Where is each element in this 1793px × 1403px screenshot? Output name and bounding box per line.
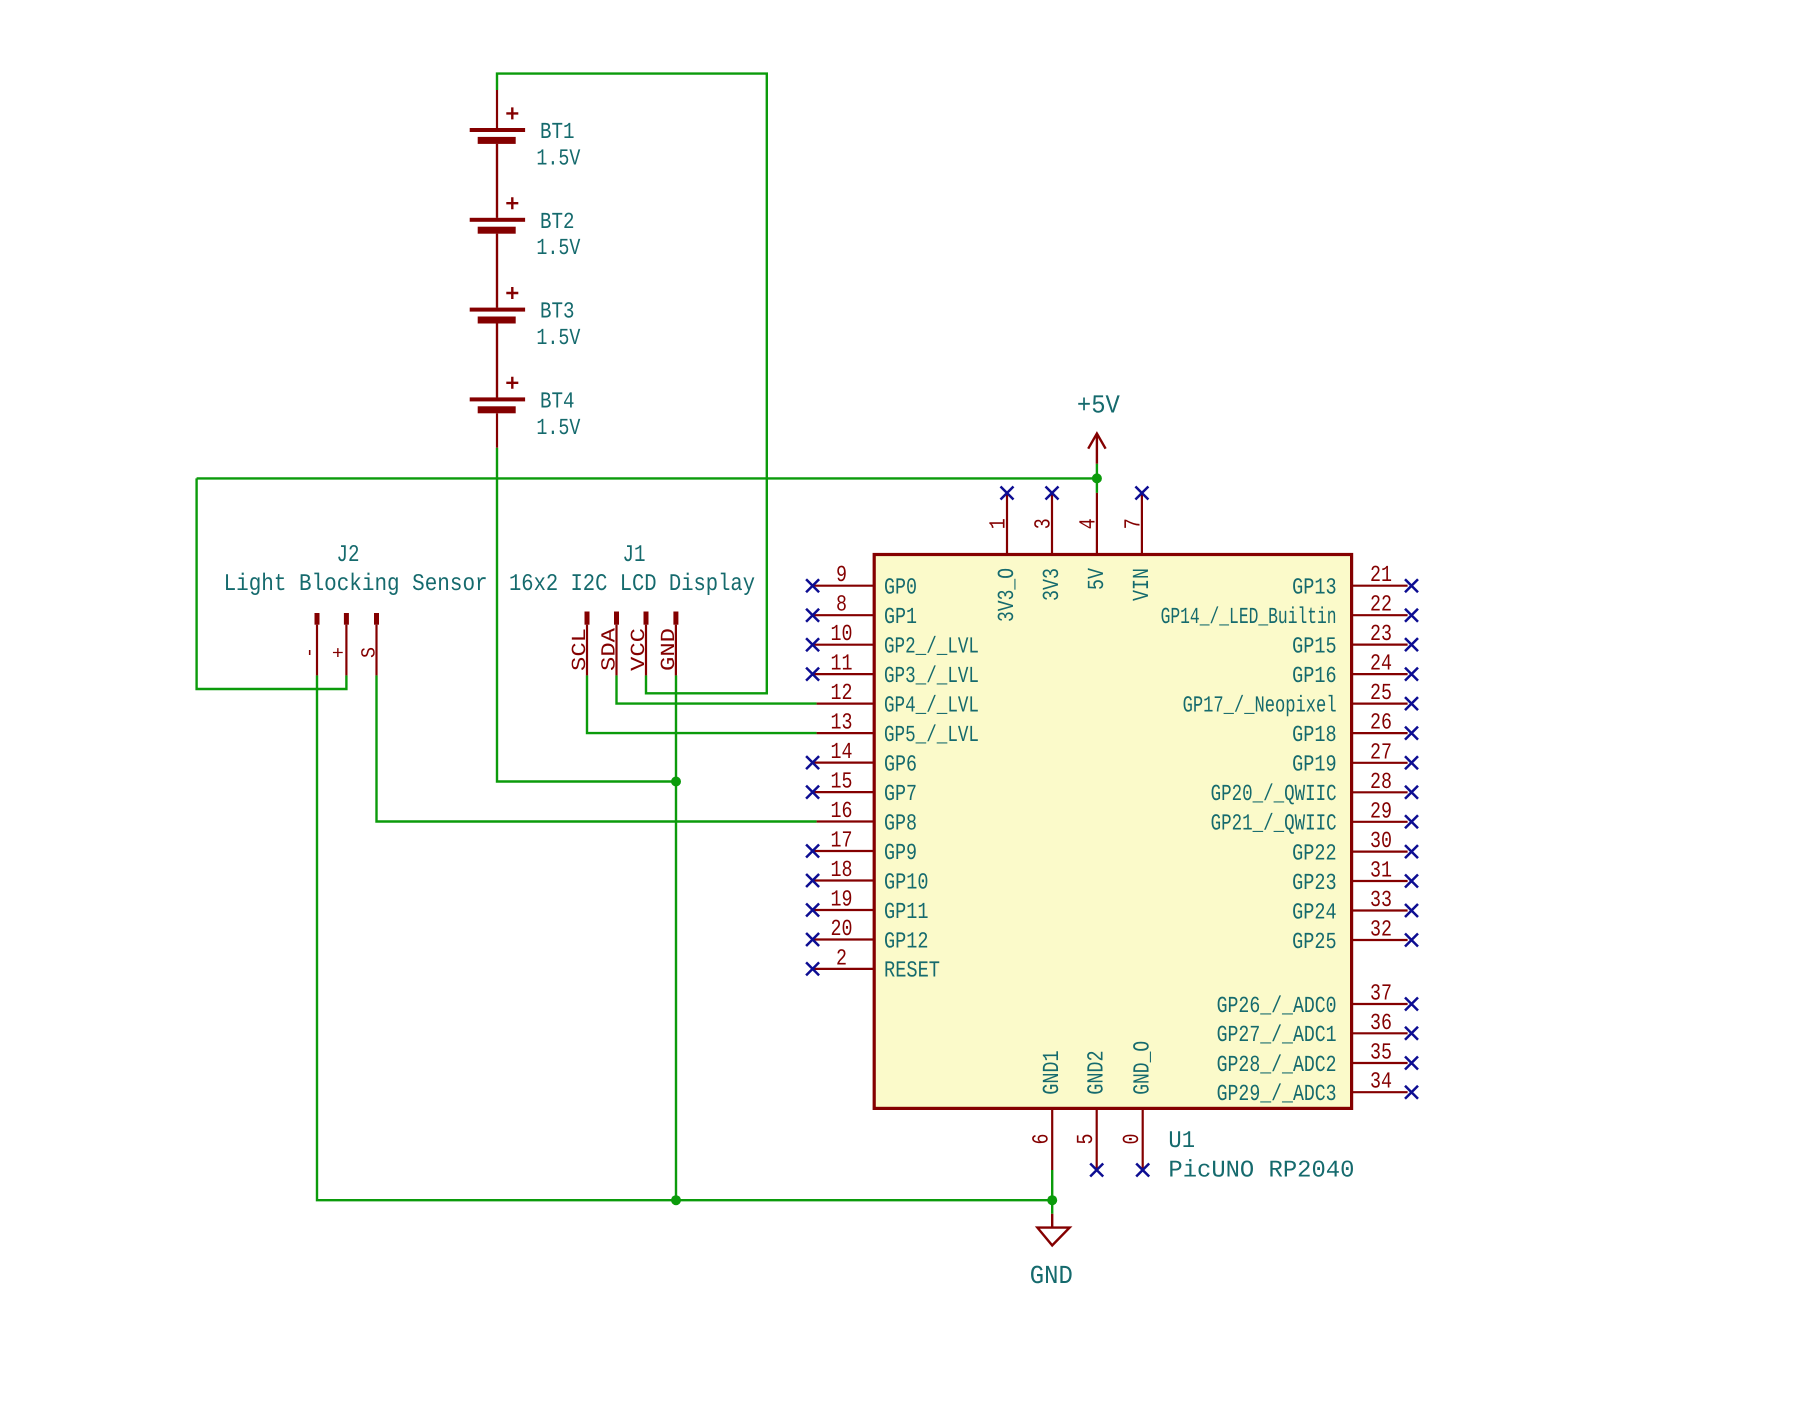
U1 pin 16 (GP8)	[817, 798, 917, 836]
svg-text:GP29_/_ADC3: GP29_/_ADC3	[1217, 1081, 1337, 1107]
svg-text:GP7: GP7	[884, 781, 917, 807]
svg-text:30: 30	[1370, 828, 1392, 854]
svg-text:12: 12	[831, 680, 853, 706]
svg-text:VCC: VCC	[628, 628, 651, 671]
wire: +5V power symbol to U1 5V pin (pin 4)	[1096, 464, 1098, 493]
U1 pin 11 (GP3_/_LVL)	[806, 651, 979, 689]
svg-text:36: 36	[1370, 1010, 1392, 1036]
svg-text:16: 16	[831, 798, 853, 824]
U1 pin 10 (GP2_/_LVL)	[806, 621, 979, 659]
svg-text:18: 18	[831, 857, 853, 883]
U1 pin 7 (VIN) top	[1120, 487, 1155, 602]
connector J2 reference and name	[224, 542, 488, 598]
wire: J2 S pin to U1 GP8 (pin 16)	[377, 675, 817, 821]
svg-text:1.5V: 1.5V	[536, 325, 580, 351]
svg-text:3: 3	[1031, 518, 1057, 529]
U1 pin 17 (GP9)	[806, 828, 917, 866]
svg-text:25: 25	[1370, 680, 1392, 706]
svg-text:GND1: GND1	[1039, 1050, 1065, 1095]
svg-text:3V3_O: 3V3_O	[994, 568, 1020, 622]
svg-text:GP9: GP9	[884, 840, 917, 866]
svg-text:27: 27	[1370, 739, 1392, 765]
U1 pin 20 (GP12)	[806, 916, 928, 954]
U1 pin 9 (GP0)	[806, 562, 917, 600]
wire: J2 - pin down to GND bottom rail	[317, 675, 1052, 1200]
svg-text:6: 6	[1029, 1134, 1055, 1145]
svg-text:SCL: SCL	[569, 628, 592, 671]
svg-text:GP21_/_QWIIC: GP21_/_QWIIC	[1211, 811, 1337, 837]
svg-text:4: 4	[1075, 518, 1101, 529]
junction: +5V rail at U1 5V pin	[1092, 473, 1102, 483]
U1 pin 37 (GP26_/_ADC0)	[1217, 981, 1418, 1019]
U1 pin 24 (GP16)	[1292, 651, 1418, 689]
svg-text:J2: J2	[337, 542, 360, 569]
svg-text:33: 33	[1370, 887, 1392, 913]
svg-text:GP18: GP18	[1292, 722, 1337, 748]
svg-text:GP28_/_ADC2: GP28_/_ADC2	[1217, 1052, 1337, 1078]
svg-text:GP11: GP11	[884, 899, 929, 925]
svg-text:5V: 5V	[1084, 568, 1110, 590]
connector J1 reference and name	[509, 542, 755, 598]
svg-text:GP4_/_LVL: GP4_/_LVL	[884, 692, 979, 718]
junction: J1 GND vertical joins bottom GND rail	[671, 1195, 681, 1205]
battery BT1 1.5V	[470, 90, 581, 218]
wire: +5V rail down/over to J2 + pin	[197, 478, 347, 689]
U1 pin 30 (GP22)	[1292, 828, 1418, 866]
power symbol +5V	[1077, 391, 1120, 464]
svg-text:GP2_/_LVL: GP2_/_LVL	[884, 634, 979, 660]
svg-text:GP22: GP22	[1292, 840, 1337, 866]
svg-text:11: 11	[831, 651, 853, 677]
svg-text:+5V: +5V	[1077, 391, 1120, 421]
U1 pin 1 (3V3_O) top	[986, 487, 1021, 623]
svg-text:J1: J1	[623, 542, 646, 569]
op-amp-style IC body: U1 PicUNO RP2040	[874, 555, 1351, 1109]
svg-text:1.5V: 1.5V	[536, 235, 580, 261]
svg-text:9: 9	[836, 562, 847, 588]
svg-text:GP19: GP19	[1292, 752, 1337, 778]
U1 pin 27 (GP19)	[1292, 739, 1418, 777]
U1 pin 25 (GP17_/_Neopixel)	[1183, 680, 1418, 718]
svg-text:31: 31	[1370, 858, 1392, 884]
ground symbol GND	[1030, 1214, 1073, 1291]
svg-text:GP26_/_ADC0: GP26_/_ADC0	[1217, 993, 1337, 1019]
svg-text:BT2: BT2	[540, 209, 575, 235]
U1 pin 2 (RESET)	[806, 945, 940, 983]
svg-text:GP27_/_ADC1: GP27_/_ADC1	[1217, 1022, 1337, 1048]
svg-text:GP20_/_QWIIC: GP20_/_QWIIC	[1211, 781, 1337, 807]
U1 pin 14 (GP6)	[806, 739, 917, 777]
svg-text:GP6: GP6	[884, 751, 917, 777]
svg-text:PicUNO RP2040: PicUNO RP2040	[1168, 1157, 1354, 1184]
svg-text:1.5V: 1.5V	[536, 415, 580, 441]
svg-text:20: 20	[831, 916, 853, 942]
connector J1 pin 1 (SCL)	[569, 612, 592, 676]
U1 pin 22 (GP14_/_LED_Builtin)	[1161, 592, 1418, 630]
connector J1 pin 4 (GND)	[658, 612, 681, 676]
svg-text:GND2: GND2	[1084, 1050, 1110, 1095]
svg-text:BT4: BT4	[540, 388, 575, 414]
connector J2 pin 3 (S)	[359, 613, 382, 675]
battery BT4 1.5V	[470, 324, 581, 448]
wire: battery BT4 - terminal down/over to GND net	[497, 448, 676, 782]
U1 pin 19 (GP11)	[806, 887, 928, 925]
svg-text:34: 34	[1370, 1069, 1392, 1095]
U1 pin 35 (GP28_/_ADC2)	[1217, 1040, 1418, 1078]
svg-text:BT1: BT1	[540, 119, 575, 145]
wire: J1 SCL to U1 GP5 (pin 13)	[587, 675, 817, 733]
svg-text:GND_O: GND_O	[1130, 1041, 1156, 1095]
svg-text:29: 29	[1370, 798, 1392, 824]
junction: bottom GND rail at U1 GND1	[1047, 1195, 1057, 1205]
svg-text:GP3_/_LVL: GP3_/_LVL	[884, 663, 979, 689]
svg-text:GP13: GP13	[1292, 575, 1337, 601]
svg-text:24: 24	[1370, 651, 1392, 677]
svg-text:GND: GND	[1030, 1261, 1073, 1291]
svg-text:10: 10	[831, 621, 853, 647]
svg-text:GP24: GP24	[1292, 899, 1337, 925]
svg-text:GP16: GP16	[1292, 663, 1337, 689]
U1 pin 3 (3V3) top	[1031, 487, 1066, 602]
wire: battery BT1 + terminal up/over/down to J1 VCC pin	[497, 74, 767, 694]
U1 pin 0 (GND_O) bottom	[1119, 1041, 1156, 1177]
svg-text:32: 32	[1370, 917, 1392, 943]
svg-text:RESET: RESET	[884, 958, 940, 984]
U1 pin 29 (GP21_/_QWIIC)	[1211, 798, 1418, 836]
U1 pin 28 (GP20_/_QWIIC)	[1211, 769, 1418, 807]
svg-text:GP5_/_LVL: GP5_/_LVL	[884, 722, 979, 748]
svg-text:5: 5	[1073, 1134, 1099, 1145]
connector J2 pin 1 (-)	[299, 613, 322, 675]
U1 pin 34 (GP29_/_ADC3)	[1217, 1069, 1418, 1107]
connector J1 pin 2 (SDA)	[599, 612, 622, 676]
svg-text:35: 35	[1370, 1040, 1392, 1066]
svg-text:BT3: BT3	[540, 299, 575, 325]
svg-text:21: 21	[1370, 562, 1392, 588]
U1 pin 32 (GP25)	[1292, 917, 1418, 955]
svg-text:3V3: 3V3	[1039, 568, 1065, 601]
svg-text:GP12: GP12	[884, 928, 929, 954]
svg-text:15: 15	[831, 769, 853, 795]
svg-text:0: 0	[1119, 1134, 1145, 1145]
U1 pin 33 (GP24)	[1292, 887, 1418, 925]
U1 pin 21 (GP13)	[1292, 562, 1418, 600]
U1 pin 4 (5V) top	[1075, 493, 1110, 590]
svg-text:GP8: GP8	[884, 810, 917, 836]
svg-text:19: 19	[831, 887, 853, 913]
U1 pin 31 (GP23)	[1292, 858, 1418, 896]
connector J1 pin 3 (VCC)	[628, 612, 651, 676]
svg-text:8: 8	[836, 592, 847, 618]
svg-text:SDA: SDA	[599, 628, 622, 671]
svg-text:7: 7	[1120, 518, 1146, 529]
connector J2 pin 2 (+)	[328, 613, 351, 675]
U1 pin 23 (GP15)	[1292, 621, 1418, 659]
battery BT2 1.5V	[470, 144, 581, 308]
wire: U1 GND1 pin to GND symbol	[1051, 1170, 1053, 1214]
svg-text:13: 13	[831, 710, 853, 736]
U1 reference and value labels	[1168, 1128, 1354, 1185]
junction: battery - joins J1 GND vertical	[671, 777, 681, 787]
svg-text:1: 1	[986, 518, 1012, 529]
svg-text:37: 37	[1370, 981, 1392, 1007]
svg-text:14: 14	[831, 739, 853, 765]
U1 pin 18 (GP10)	[806, 857, 928, 895]
wire: +5V horizontal rail	[197, 477, 1097, 479]
svg-text:S: S	[359, 647, 382, 658]
U1 pin 15 (GP7)	[806, 769, 917, 807]
svg-text:1.5V: 1.5V	[536, 145, 580, 171]
U1 pin 13 (GP5_/_LVL)	[817, 710, 979, 748]
svg-text:GP15: GP15	[1292, 633, 1337, 659]
svg-text:28: 28	[1370, 769, 1392, 795]
wire: J1 GND pin down to GND bottom rail	[675, 675, 677, 1200]
U1 pin 26 (GP18)	[1292, 710, 1418, 748]
svg-text:23: 23	[1370, 621, 1392, 647]
U1 pin 8 (GP1)	[806, 592, 917, 630]
svg-text:GND: GND	[658, 628, 681, 671]
svg-text:GP17_/_Neopixel: GP17_/_Neopixel	[1183, 692, 1337, 718]
U1 pin 12 (GP4_/_LVL)	[817, 680, 979, 718]
svg-text:GP25: GP25	[1292, 929, 1337, 955]
svg-text:22: 22	[1370, 592, 1392, 618]
svg-text:GP10: GP10	[884, 869, 929, 895]
svg-text:U1: U1	[1168, 1128, 1195, 1155]
U1 pin 6 (GND1) bottom	[1029, 1050, 1066, 1170]
svg-text:GP23: GP23	[1292, 870, 1337, 896]
svg-text:16x2 I2C LCD Display: 16x2 I2C LCD Display	[509, 571, 755, 598]
svg-text:17: 17	[831, 828, 853, 854]
svg-text:26: 26	[1370, 710, 1392, 736]
svg-text:GP1: GP1	[884, 604, 917, 630]
svg-text:2: 2	[836, 945, 847, 971]
svg-text:GP14_/_LED_Builtin: GP14_/_LED_Builtin	[1161, 604, 1337, 630]
svg-text:-: -	[299, 647, 322, 658]
svg-text:VIN: VIN	[1129, 568, 1155, 601]
svg-text:+: +	[328, 647, 351, 658]
U1 pin 36 (GP27_/_ADC1)	[1217, 1010, 1418, 1048]
battery BT3 1.5V	[470, 234, 581, 398]
U1 pin 5 (GND2) bottom	[1073, 1050, 1110, 1176]
wire: J1 SDA to U1 GP4 (pin 12)	[617, 675, 817, 703]
svg-text:Light Blocking Sensor: Light Blocking Sensor	[224, 571, 488, 598]
svg-text:GP0: GP0	[884, 575, 917, 601]
